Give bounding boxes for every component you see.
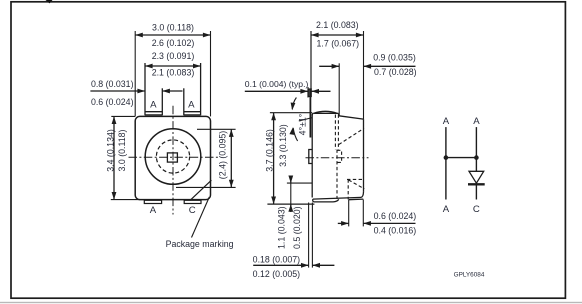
ext line 0.1 typ bbox=[307, 87, 309, 98]
dim tail 0.18 left bbox=[253, 264, 308, 266]
arrow 2.1 left bbox=[145, 64, 153, 69]
svg-text:0.9 (0.035): 0.9 (0.035) bbox=[373, 52, 416, 62]
ext line 0.18 right bbox=[311, 203, 313, 268]
svg-text:2.1 (0.083): 2.1 (0.083) bbox=[152, 68, 195, 78]
grey page rule bottom bbox=[0, 302, 582, 303]
ext line 0.18 left bbox=[308, 203, 310, 268]
svg-text:0.6 (0.024): 0.6 (0.024) bbox=[374, 211, 417, 221]
arrow 2.4 up bbox=[229, 129, 234, 137]
arrow 0.6 right bbox=[341, 221, 349, 226]
svg-text:A: A bbox=[188, 100, 195, 111]
side centerline bbox=[306, 157, 369, 159]
arrow 3.7 up bbox=[271, 113, 276, 121]
junction node left bbox=[444, 155, 449, 160]
body left face bbox=[311, 115, 313, 198]
lead top-left outer edge / ext line bbox=[144, 63, 146, 115]
ext line 0.6 left bbox=[348, 200, 350, 227]
ext line 3.7 top bbox=[270, 112, 312, 114]
arrow side 2.1 left bbox=[311, 33, 319, 38]
arrow 0.8 right bbox=[137, 89, 145, 94]
arrow 3.7 down bbox=[271, 197, 276, 205]
arrow 1.1 down bbox=[288, 176, 293, 184]
inner dashed circle bbox=[156, 140, 189, 173]
arrow 3.4 down bbox=[112, 192, 117, 200]
wire anode right top bbox=[475, 127, 477, 171]
angle arc 4deg upper bbox=[292, 98, 296, 110]
arrow side 2.1 right bbox=[356, 33, 364, 38]
lead top-left foot line bbox=[145, 114, 162, 116]
package body outline bbox=[135, 116, 210, 199]
svg-text:Package marking: Package marking bbox=[166, 239, 234, 249]
svg-text:1.7 (0.067): 1.7 (0.067) bbox=[317, 38, 360, 48]
vertical centerline bbox=[172, 106, 174, 215]
svg-text:2.3 (0.091): 2.3 (0.091) bbox=[152, 51, 195, 61]
svg-text:3.0 (0.118): 3.0 (0.118) bbox=[117, 129, 127, 171]
internal dashed vertical lower bbox=[336, 150, 338, 200]
svg-text:0.4 (0.016): 0.4 (0.016) bbox=[374, 226, 417, 236]
wire anode left bbox=[445, 127, 447, 199]
body top dome arc bbox=[314, 111, 338, 113]
svg-text:0.6 (0.024): 0.6 (0.024) bbox=[91, 97, 134, 107]
arrow 0.1 right bbox=[300, 89, 308, 94]
leader line to Package marking text bbox=[192, 197, 210, 238]
arrow 2.4 down bbox=[229, 180, 234, 188]
arrow 2.1 right bbox=[193, 64, 201, 69]
ext line body right top bbox=[210, 31, 212, 116]
svg-text:C: C bbox=[473, 204, 480, 215]
svg-text:A: A bbox=[473, 116, 480, 127]
arrow 0.1 left bbox=[311, 89, 319, 94]
internal dashed bump bbox=[337, 150, 342, 162]
internal dashed diagonal top bbox=[339, 128, 364, 144]
dim line 1.1/0.5 upper tail bbox=[290, 176, 292, 184]
body top-left corner bbox=[312, 113, 313, 115]
body bottom edge bbox=[313, 197, 361, 199]
svg-text:1.1 (0.043): 1.1 (0.043) bbox=[276, 206, 286, 249]
body right edge bbox=[363, 119, 365, 192]
ext line side left bbox=[310, 31, 312, 89]
ext line lens top bbox=[197, 128, 236, 130]
svg-text:C: C bbox=[189, 205, 196, 216]
dim line 2.1/1.7 side bbox=[311, 34, 364, 36]
body bottom right corner bbox=[361, 192, 364, 198]
internal dashed vertical bottom bbox=[347, 179, 349, 199]
lead top-left inner edge bbox=[161, 88, 163, 115]
dim tail 0.6 right bbox=[363, 222, 415, 224]
bottom foot lead A bbox=[144, 200, 161, 203]
diode D1 triangle bbox=[469, 171, 484, 183]
lead outer face left bbox=[309, 89, 311, 138]
lead top-right outer edge / ext line bbox=[200, 63, 202, 115]
svg-text:4°±1°: 4°±1° bbox=[298, 114, 308, 136]
ext line body left top bbox=[134, 31, 136, 116]
arrow 3.0 left bbox=[135, 33, 143, 38]
ext line 0.9 left bbox=[338, 63, 340, 116]
ext line 0.6 right bbox=[362, 200, 364, 227]
body top slope right bbox=[339, 116, 364, 119]
ext line lens bottom bbox=[176, 186, 236, 188]
body top right corner drop bbox=[337, 113, 340, 115]
arrow 0.9 left bbox=[364, 64, 372, 69]
cathode chamfer marking diagonal bbox=[190, 180, 211, 200]
arrow 0.8 left bbox=[162, 89, 170, 94]
ext line lead bend bbox=[287, 182, 312, 184]
arrow 4deg top bbox=[290, 102, 296, 110]
dim tail 0.6 left bbox=[338, 222, 349, 224]
dim line 0.1 typ bbox=[245, 90, 308, 92]
svg-text:A: A bbox=[150, 205, 157, 216]
arrow 0.18 right bbox=[301, 263, 309, 268]
svg-text:0.5 (0.020): 0.5 (0.020) bbox=[292, 206, 302, 249]
angle arc 4deg lower bbox=[293, 128, 297, 141]
arrow 3.0 right bbox=[203, 33, 211, 38]
svg-text:3.7 (0.146): 3.7 (0.146) bbox=[265, 129, 275, 172]
dim tail 0.18 right bbox=[312, 264, 334, 266]
wire cathode bottom bbox=[475, 184, 477, 199]
lead top-right inner edge bbox=[183, 88, 185, 115]
arrow 1.1 up bbox=[288, 204, 293, 212]
svg-text:3.4 (0.134): 3.4 (0.134) bbox=[105, 129, 115, 172]
arrow 0.9 right bbox=[332, 64, 340, 69]
internal dashed diagonal bottom bbox=[349, 180, 365, 189]
lead face slope line bbox=[299, 118, 312, 121]
lead tab on left face bbox=[309, 150, 312, 164]
cut-off text remnant top bbox=[46, 0, 53, 3]
ext line side right bbox=[363, 31, 365, 119]
svg-text:3.3 (0.130): 3.3 (0.130) bbox=[278, 124, 288, 167]
dim line 3.7/3.3 vertical bbox=[273, 113, 275, 204]
svg-text:A: A bbox=[150, 100, 157, 111]
arrow 4deg bottom bbox=[289, 127, 295, 135]
body top dome flat bbox=[313, 112, 338, 114]
ext line height top bbox=[111, 115, 135, 117]
junction node right bbox=[474, 155, 479, 160]
seating plane line bbox=[267, 203, 314, 205]
lens circle bbox=[145, 129, 201, 185]
dim tail 0.9 left bbox=[319, 65, 339, 67]
svg-text:0.18 (0.007): 0.18 (0.007) bbox=[253, 255, 301, 265]
svg-text:0.12 (0.005): 0.12 (0.005) bbox=[253, 269, 301, 279]
svg-text:2.1 (0.083): 2.1 (0.083) bbox=[316, 20, 359, 30]
svg-text:0.8 (0.031): 0.8 (0.031) bbox=[91, 79, 134, 89]
dim line 3.0/2.6 bbox=[135, 34, 210, 36]
internal dashed vertical left bbox=[334, 115, 336, 150]
horizontal centerline bbox=[129, 156, 219, 158]
bottom foot lead C bbox=[184, 200, 201, 203]
lead top-right bottom line bbox=[184, 111, 201, 113]
dim line 1.1/0.5 lower tail bbox=[290, 204, 292, 212]
wire horizontal tie bbox=[446, 157, 477, 159]
lead top-left bottom line bbox=[145, 111, 162, 113]
svg-text:(2.4) (0.095): (2.4) (0.095) bbox=[218, 131, 228, 179]
dim tail 0.1 right bbox=[311, 90, 330, 92]
dim line 3.4/3.0 vertical bbox=[113, 116, 115, 199]
internal dashed horizontal bottom bbox=[347, 178, 363, 180]
center square chip bbox=[167, 153, 177, 162]
svg-text:0.7 (0.028): 0.7 (0.028) bbox=[374, 67, 417, 77]
dim line 1.1/0.5 span bbox=[290, 183, 292, 204]
svg-text:A: A bbox=[443, 204, 450, 215]
arrow 3.4 up bbox=[112, 116, 117, 124]
arrow 0.6 left bbox=[363, 221, 371, 226]
diode D1 cathode bar bbox=[468, 183, 485, 185]
svg-text:2.6 (0.102): 2.6 (0.102) bbox=[152, 38, 195, 48]
svg-text:3.0 (0.118): 3.0 (0.118) bbox=[152, 23, 194, 33]
dim line (2.4) vertical bbox=[230, 129, 232, 187]
dim tail 0.9 right bbox=[364, 65, 416, 67]
right foot sliver bbox=[349, 198, 363, 201]
lead foot under left bbox=[313, 199, 339, 202]
svg-text:0.1 (0.004) (typ.): 0.1 (0.004) (typ.) bbox=[245, 79, 309, 89]
lead tip top-left bbox=[308, 89, 311, 97]
dim line 0.8/0.6 bbox=[90, 90, 145, 92]
dim tail 0.8/0.6 right bbox=[162, 90, 182, 92]
svg-text:GPLY6084: GPLY6084 bbox=[454, 272, 485, 279]
arrow 0.18 left bbox=[312, 263, 320, 268]
internal dashed vertical right bbox=[337, 115, 339, 150]
svg-text:A: A bbox=[443, 116, 450, 127]
dim line 2.3/2.1 bbox=[145, 65, 201, 67]
lead top-right foot line bbox=[184, 114, 201, 116]
ext line height bottom bbox=[111, 199, 140, 201]
